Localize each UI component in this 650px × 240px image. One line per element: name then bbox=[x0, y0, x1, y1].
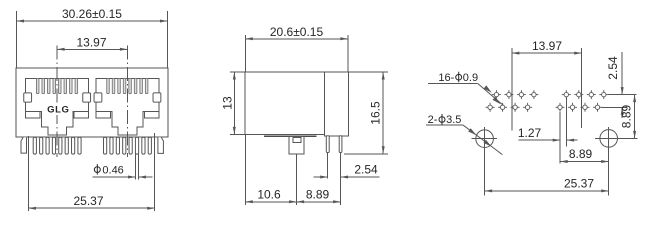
dimension 1.27 (stagger offset) bbox=[518, 98, 578, 164]
svg-text:2.54: 2.54 bbox=[606, 56, 620, 80]
right pin-hole group, bottom row (4x Φ0.9) bbox=[556, 103, 603, 112]
label 16-Φ0.9 with leader bbox=[428, 72, 503, 106]
svg-text:25.37: 25.37 bbox=[73, 194, 103, 208]
side view: board lock post bbox=[289, 137, 304, 154]
svg-text:GLG: GLG bbox=[47, 104, 69, 115]
dimension 8.89 (horizontal, footprint) bbox=[560, 147, 609, 163]
port 1 left lower window bbox=[26, 112, 41, 118]
right pin-hole group, top row (4x Φ0.9) bbox=[562, 90, 609, 99]
dimension 25.37 (mounting hole spacing) bbox=[485, 177, 609, 193]
dimension Φ0.46 (pin width) with leader bbox=[93, 154, 153, 180]
port 2 left side lug bbox=[94, 93, 102, 102]
svg-text:16-: 16- bbox=[438, 72, 454, 84]
dimension 2.54 (row spacing, footprint) bbox=[602, 52, 637, 118]
svg-text:20.6±0.15: 20.6±0.15 bbox=[270, 25, 324, 39]
svg-text:30.26±0.15: 30.26±0.15 bbox=[62, 7, 122, 21]
svg-text:16.5: 16.5 bbox=[369, 101, 383, 125]
side view: rear section bbox=[324, 72, 348, 136]
port 2 solder pins (8) bbox=[104, 137, 152, 154]
side view: main housing body bbox=[245, 72, 324, 135]
port 2 right lower window bbox=[144, 112, 159, 118]
port 1 right side lug bbox=[83, 93, 91, 102]
side view: bottom standoff strip bbox=[264, 135, 317, 137]
dimension 13.97 (port spacing) bbox=[57, 36, 127, 158]
dimension 2.54 (pin row spacing, side view) bbox=[314, 153, 380, 179]
port 1 right lower window bbox=[74, 112, 89, 118]
svg-text:13: 13 bbox=[221, 96, 235, 110]
port 2 cavity outline bbox=[96, 78, 159, 135]
svg-text:8.89: 8.89 bbox=[569, 147, 593, 161]
dimension 16.5 (total height) bbox=[344, 72, 388, 154]
port 1 solder pins (8) bbox=[33, 137, 81, 154]
port 1 cavity outline bbox=[26, 78, 89, 135]
svg-text:13.97: 13.97 bbox=[76, 36, 106, 50]
side view: front row pin bbox=[326, 136, 329, 153]
right board lock post bbox=[158, 137, 164, 153]
dimension 25.37 (front view) bbox=[28, 133, 154, 211]
svg-text:0.9: 0.9 bbox=[463, 72, 478, 84]
svg-text:25.37: 25.37 bbox=[564, 177, 594, 191]
left pin-hole group, bottom row (4x Φ0.9) bbox=[486, 103, 532, 112]
dimension 30.26±0.15 bbox=[17, 7, 168, 68]
svg-text:8.89: 8.89 bbox=[620, 104, 634, 128]
label 2-Φ3.5 with leader bbox=[426, 114, 503, 155]
svg-text:8.89: 8.89 bbox=[306, 188, 330, 202]
right mounting hole Φ3.5 bbox=[595, 127, 638, 196]
port 2 right side lug bbox=[153, 93, 161, 102]
dimension 13 (body height) bbox=[221, 72, 245, 134]
svg-text:2.54: 2.54 bbox=[354, 163, 378, 177]
port 1 left side lug bbox=[24, 93, 32, 102]
left mounting hole Φ3.5 bbox=[472, 127, 498, 195]
GLG logo text bbox=[46, 104, 71, 116]
port 2 contact comb (8 teeth) bbox=[107, 78, 148, 93]
svg-text:10.6: 10.6 bbox=[257, 188, 281, 202]
side view: back row pin bbox=[339, 136, 342, 153]
port 1 contact comb (8 teeth) bbox=[36, 78, 77, 93]
dimension 13.97 (hole group spacing) bbox=[512, 39, 582, 130]
port 2 left lower window bbox=[96, 112, 111, 118]
dimension 20.6±0.15 bbox=[245, 25, 348, 72]
left board lock post bbox=[21, 137, 27, 153]
front view: connector body outline bbox=[16, 68, 168, 137]
svg-text:1.27: 1.27 bbox=[518, 126, 542, 140]
svg-text:0.46: 0.46 bbox=[102, 164, 123, 176]
side view: post notch window bbox=[293, 138, 301, 143]
dimension 8.89 (vertical, footprint) bbox=[620, 95, 637, 139]
dimension 10.6 and 8.89 (bottom, side view) bbox=[245, 135, 340, 205]
svg-text:13.97: 13.97 bbox=[532, 39, 562, 53]
left pin-hole group, top row (4x Φ0.9) bbox=[492, 90, 539, 99]
